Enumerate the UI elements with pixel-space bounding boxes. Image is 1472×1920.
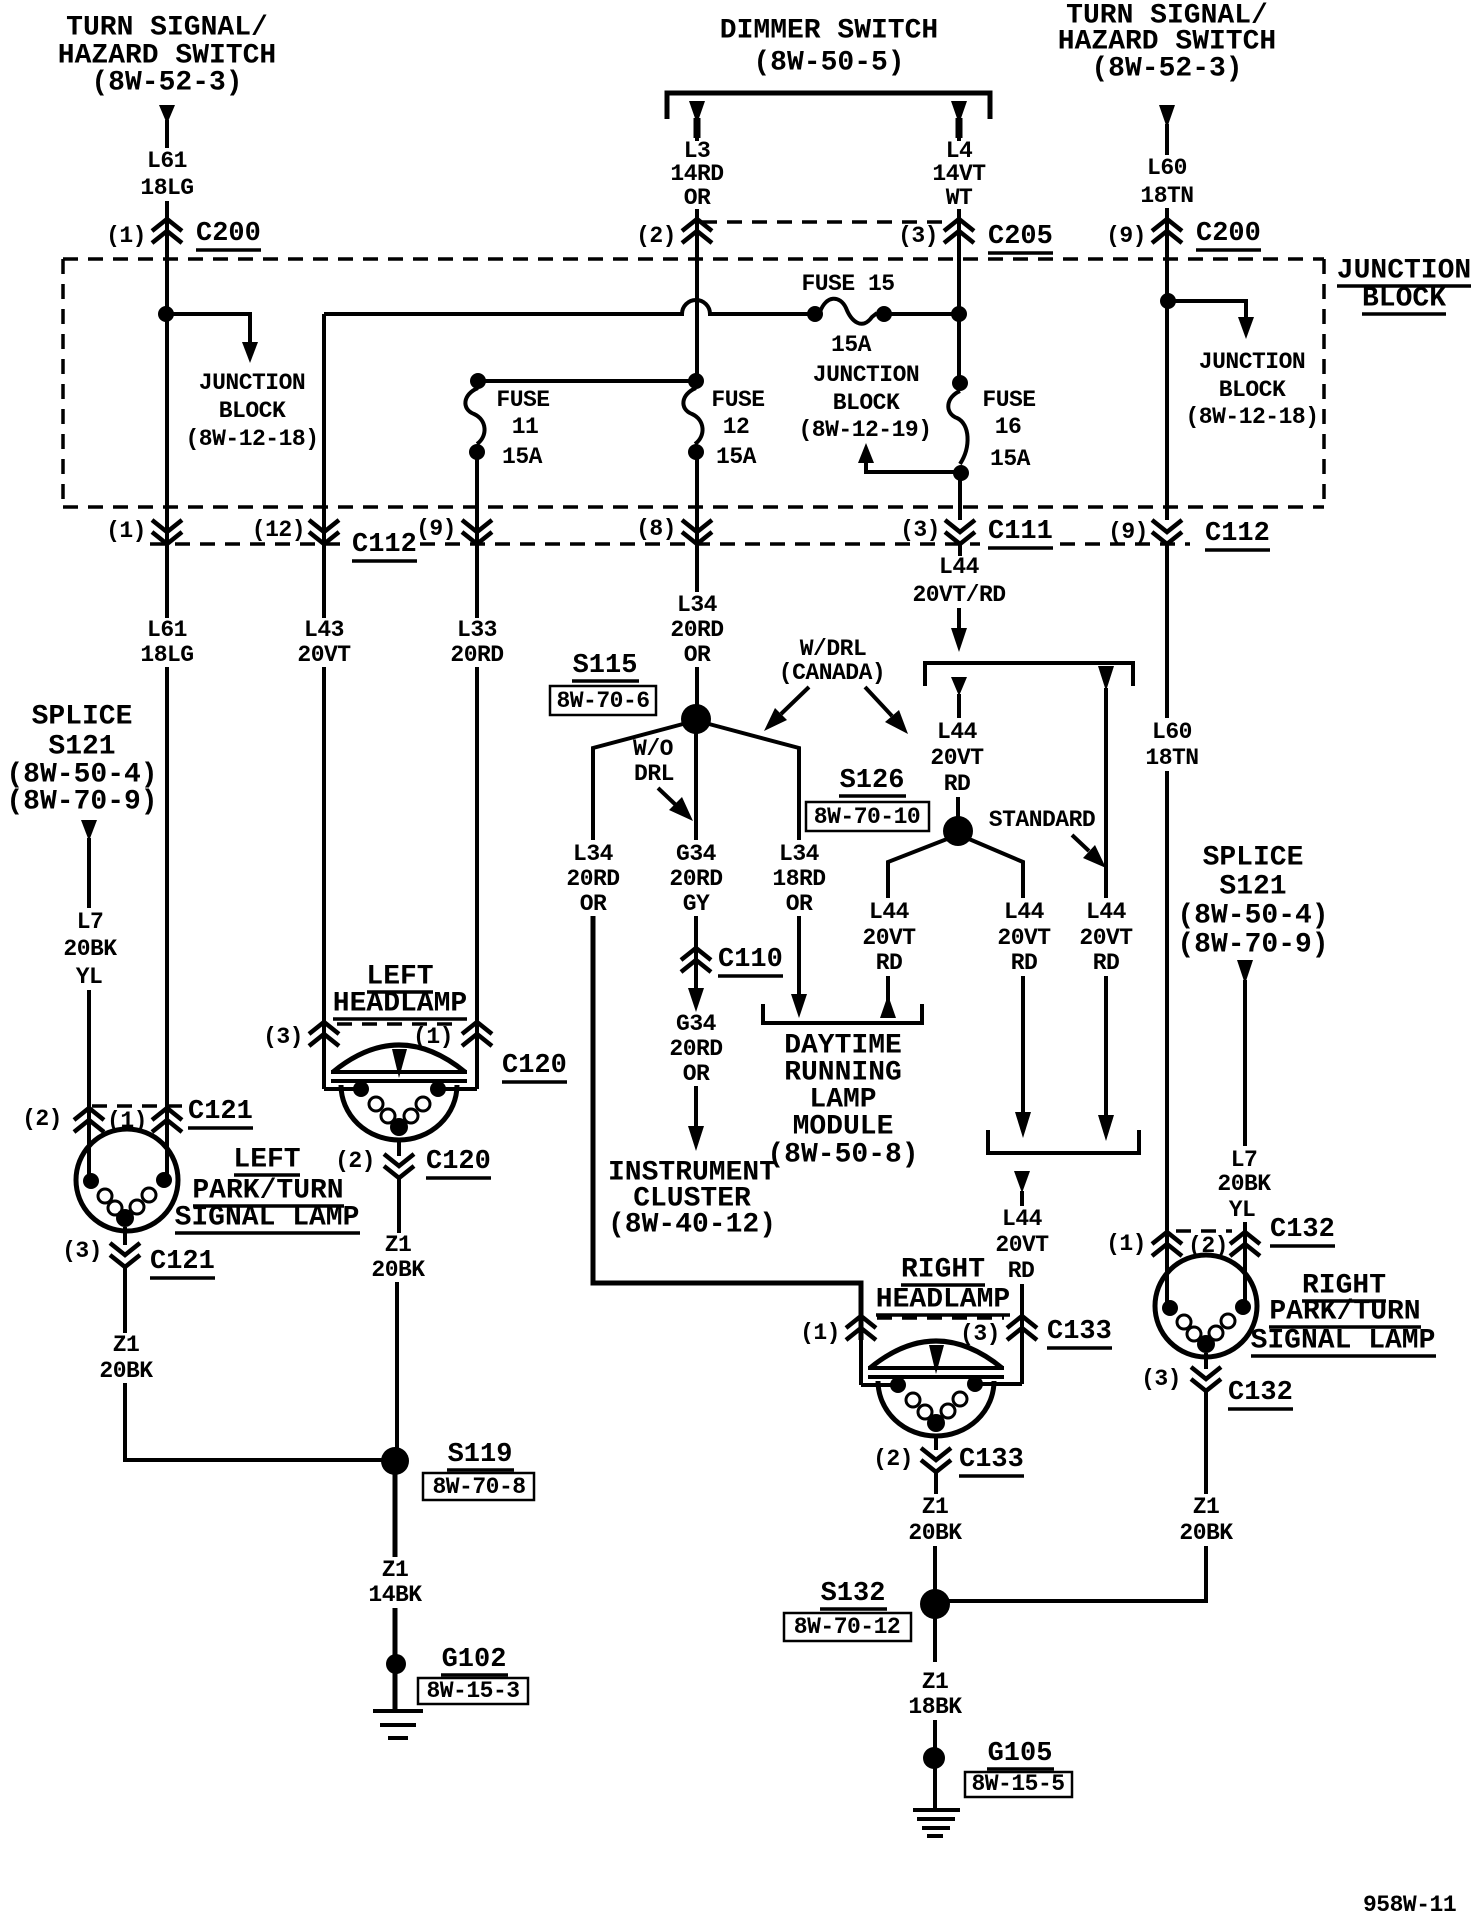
svg-text:(CANADA): (CANADA) xyxy=(779,660,885,686)
svg-text:BLOCK: BLOCK xyxy=(1219,377,1286,403)
svg-text:15A: 15A xyxy=(990,446,1031,472)
svg-text:OR: OR xyxy=(683,1061,710,1087)
svg-text:L34: L34 xyxy=(677,592,718,618)
fuse F12 xyxy=(683,373,764,470)
svg-text:C133: C133 xyxy=(1047,1317,1112,1347)
svg-text:L44: L44 xyxy=(937,719,978,745)
header: dimmer switch xyxy=(720,16,938,79)
svg-text:JUNCTION: JUNCTION xyxy=(1199,349,1305,375)
label: left park/turn signal lamp xyxy=(175,1145,360,1234)
svg-text:C200: C200 xyxy=(196,219,261,249)
svg-text:BLOCK: BLOCK xyxy=(1362,284,1446,315)
label: left headlamp xyxy=(333,962,467,1020)
svg-text:L44: L44 xyxy=(1004,899,1045,925)
wire Z1 14BK to ground G102 xyxy=(368,1473,422,1712)
connector C121 pin 1 xyxy=(107,1097,253,1134)
connector C111 pin 3 xyxy=(900,517,1053,548)
svg-text:L60: L60 xyxy=(1147,155,1187,181)
wire Z1 20BK from right headlamp to S132 xyxy=(908,1472,962,1594)
svg-text:JUNCTION: JUNCTION xyxy=(199,370,305,396)
wire L7 20BK YL to right park/turn lamp xyxy=(1217,980,1271,1303)
svg-text:G102: G102 xyxy=(442,1645,507,1675)
svg-text:20VT: 20VT xyxy=(862,925,916,951)
svg-text:L33: L33 xyxy=(457,617,497,643)
junction node on L61 xyxy=(158,306,174,322)
svg-text:C120: C120 xyxy=(502,1051,567,1081)
svg-text:S132: S132 xyxy=(821,1579,886,1609)
svg-text:L60: L60 xyxy=(1152,719,1192,745)
svg-text:958W-11: 958W-11 xyxy=(1363,1892,1456,1918)
svg-text:JUNCTION: JUNCTION xyxy=(1337,256,1471,287)
svg-text:20BK: 20BK xyxy=(1217,1171,1271,1197)
right park/turn signal lamp symbol xyxy=(1155,1255,1257,1357)
main feed wire from L4 via fuse 15 to L43 (hops over L3) xyxy=(324,300,959,314)
svg-text:16: 16 xyxy=(995,414,1022,440)
wire L3 through junction block xyxy=(695,243,699,383)
svg-text:(9): (9) xyxy=(1106,223,1146,249)
svg-text:SPLICE: SPLICE xyxy=(1203,843,1304,874)
junction block dashed outline xyxy=(63,259,1324,507)
svg-text:L44: L44 xyxy=(1086,899,1127,925)
svg-text:(8W-52-3): (8W-52-3) xyxy=(91,68,242,99)
svg-text:DIMMER SWITCH: DIMMER SWITCH xyxy=(720,16,938,47)
svg-text:12: 12 xyxy=(723,414,750,440)
svg-text:G34: G34 xyxy=(676,1011,717,1037)
wire L44 20VT RD from S126 to lamps bracket (middle) xyxy=(969,839,1051,1138)
wire G34 20RD OR to instrument cluster xyxy=(669,988,722,1151)
svg-text:8W-15-5: 8W-15-5 xyxy=(971,1771,1064,1797)
svg-text:(8W-50-8): (8W-50-8) xyxy=(767,1140,918,1171)
header: turn signal/hazard switch (right) xyxy=(1058,1,1276,85)
svg-text:(1): (1) xyxy=(1106,1231,1146,1257)
svg-text:(1): (1) xyxy=(106,223,146,249)
svg-text:OR: OR xyxy=(580,891,607,917)
label: daytime running lamp module xyxy=(767,1031,918,1171)
wire L61 through junction block xyxy=(165,243,169,520)
wire L44 20VT RD to splice S126 xyxy=(930,677,984,818)
svg-text:8W-15-3: 8W-15-3 xyxy=(426,1678,519,1704)
svg-text:(8W-70-9): (8W-70-9) xyxy=(1177,930,1328,961)
svg-text:HEADLAMP: HEADLAMP xyxy=(333,989,467,1020)
ground G102 xyxy=(373,1645,528,1738)
svg-text:15A: 15A xyxy=(831,332,872,358)
svg-text:WT: WT xyxy=(946,185,973,211)
wire fuse 11 feed xyxy=(478,379,696,383)
connector C133 pin 3 xyxy=(960,1316,1112,1348)
svg-text:GY: GY xyxy=(683,891,710,917)
svg-text:L7: L7 xyxy=(1231,1147,1258,1173)
svg-text:20VT: 20VT xyxy=(1079,925,1133,951)
connector C112 pin 9 (L33) xyxy=(416,516,492,544)
svg-text:20BK: 20BK xyxy=(1179,1520,1233,1546)
bracket: L44 join to right headlamp xyxy=(988,1130,1139,1153)
svg-text:FUSE: FUSE xyxy=(496,387,549,413)
svg-text:L7: L7 xyxy=(77,909,104,935)
svg-text:20VT: 20VT xyxy=(995,1232,1049,1258)
splice S115 xyxy=(550,651,711,734)
svg-text:Z1: Z1 xyxy=(922,1669,949,1695)
svg-text:20RD: 20RD xyxy=(669,1036,722,1062)
dimmer switch bracket xyxy=(667,93,990,119)
svg-text:(8W-12-18): (8W-12-18) xyxy=(185,426,318,452)
connector C110 xyxy=(681,945,783,976)
svg-text:RD: RD xyxy=(1093,950,1120,976)
svg-text:C121: C121 xyxy=(150,1247,215,1277)
svg-text:(2): (2) xyxy=(873,1446,913,1472)
connector C205 pin 2 xyxy=(636,219,712,249)
svg-text:20VT: 20VT xyxy=(930,745,984,771)
svg-text:(3): (3) xyxy=(898,223,938,249)
wire L61 18LG from turn signal switch (arrow + labels) xyxy=(140,105,193,668)
connector C200 pin 1 xyxy=(106,219,261,250)
svg-text:18RD: 18RD xyxy=(772,866,825,892)
svg-text:(9): (9) xyxy=(416,516,456,542)
svg-text:C110: C110 xyxy=(718,945,783,975)
svg-text:OR: OR xyxy=(684,185,711,211)
wire L34 18RD OR (w/ DRL branch) to DRL module xyxy=(709,724,826,1018)
label: junction block 8W-12-19 with arrow to fuse 16 output xyxy=(798,362,955,472)
wire L44 20VT RD to right headlamp C133 xyxy=(995,1171,1049,1384)
svg-text:15A: 15A xyxy=(716,444,757,470)
svg-text:DRL: DRL xyxy=(634,761,674,787)
svg-text:PARK/TURN: PARK/TURN xyxy=(1269,1297,1420,1328)
svg-text:C120: C120 xyxy=(426,1147,491,1177)
svg-text:L43: L43 xyxy=(304,617,344,643)
wire L7 20BK YL to left park/turn lamp xyxy=(63,838,117,1177)
wire L44 20VT RD standard path (right) xyxy=(1079,666,1133,1141)
label: splice S121 (left) xyxy=(6,702,157,842)
wire L34 20RD OR (w/o DRL branch) to right headlamp xyxy=(566,724,861,1340)
svg-text:14RD: 14RD xyxy=(670,161,723,187)
svg-text:L44: L44 xyxy=(1002,1206,1043,1232)
svg-text:C111: C111 xyxy=(988,517,1053,547)
wire L43 20VT to left headlamp xyxy=(297,314,351,1089)
connector C120 pin 2 xyxy=(335,1139,491,1178)
svg-text:S115: S115 xyxy=(573,651,638,681)
left park/turn signal lamp symbol xyxy=(76,1129,178,1231)
wire Z1 18BK to ground G105 xyxy=(908,1618,962,1810)
svg-text:20RD: 20RD xyxy=(669,866,722,892)
svg-text:L34: L34 xyxy=(573,841,614,867)
connector C133 pin 1 xyxy=(800,1316,1004,1346)
svg-text:20BK: 20BK xyxy=(99,1358,153,1384)
svg-text:C112: C112 xyxy=(352,530,417,560)
svg-text:JUNCTION: JUNCTION xyxy=(813,362,919,388)
svg-text:(3): (3) xyxy=(960,1321,1000,1347)
svg-text:(8W-50-5): (8W-50-5) xyxy=(753,48,904,79)
svg-text:L34: L34 xyxy=(779,841,820,867)
label: instrument cluster xyxy=(608,1158,776,1241)
connector C112 pin 8 xyxy=(636,516,712,544)
svg-text:YL: YL xyxy=(1229,1197,1256,1223)
connector C200 pin 9 xyxy=(1106,219,1261,250)
svg-text:(3): (3) xyxy=(263,1024,303,1050)
fuse F16 xyxy=(948,375,1035,481)
connector C205 pin 3 xyxy=(702,219,1053,253)
svg-text:14BK: 14BK xyxy=(368,1582,422,1608)
svg-text:20RD: 20RD xyxy=(450,642,503,668)
wire L33 20RD to left headlamp xyxy=(450,452,503,1089)
svg-text:C132: C132 xyxy=(1228,1378,1293,1408)
wire fuse16 to C111 xyxy=(958,473,962,520)
connector C121 pin 2 xyxy=(22,1106,186,1132)
ground G105 xyxy=(913,1739,1072,1836)
svg-text:L44: L44 xyxy=(939,554,980,580)
svg-text:C133: C133 xyxy=(959,1445,1024,1475)
svg-text:YL: YL xyxy=(76,964,103,990)
svg-text:HEADLAMP: HEADLAMP xyxy=(876,1285,1010,1316)
svg-text:18TN: 18TN xyxy=(1145,745,1198,771)
svg-text:(8): (8) xyxy=(636,516,676,542)
connector C133 pin 2 xyxy=(873,1435,1024,1476)
wire L3 14RD OR from dimmer switch xyxy=(670,101,723,243)
header: turn signal/hazard switch (left) xyxy=(58,13,276,99)
svg-text:SIGNAL LAMP: SIGNAL LAMP xyxy=(175,1203,360,1234)
wire L44 20VT/RD from C111 xyxy=(912,544,1005,652)
svg-text:C205: C205 xyxy=(988,222,1053,252)
connector C112 pin 12 xyxy=(252,517,417,561)
svg-text:(8W-52-3): (8W-52-3) xyxy=(1091,54,1242,85)
svg-text:(8W-12-19): (8W-12-19) xyxy=(798,417,931,443)
bracket: daytime running lamp module input xyxy=(763,1004,922,1023)
wire branch to junction block 8W-12-18 (right) xyxy=(1168,301,1319,430)
left headlamp symbol U-LH xyxy=(324,1045,477,1140)
svg-text:BLOCK: BLOCK xyxy=(219,398,286,424)
svg-text:RD: RD xyxy=(944,771,971,797)
svg-text:(3): (3) xyxy=(900,517,940,543)
svg-text:(3): (3) xyxy=(62,1238,102,1264)
svg-text:MODULE: MODULE xyxy=(793,1112,894,1143)
svg-text:(2): (2) xyxy=(636,223,676,249)
svg-text:Z1: Z1 xyxy=(1193,1494,1220,1520)
wire Z1 20BK from right park/turn lamp to S132 xyxy=(946,1391,1233,1601)
fuse F11 xyxy=(465,373,549,470)
wire L60 through junction block xyxy=(1165,243,1169,520)
svg-text:RD: RD xyxy=(1008,1258,1035,1284)
svg-text:14VT: 14VT xyxy=(932,161,986,187)
label: junction block (top right) xyxy=(1337,256,1471,315)
svg-text:(8W-40-12): (8W-40-12) xyxy=(608,1210,776,1241)
svg-text:C200: C200 xyxy=(1196,219,1261,249)
svg-text:20RD: 20RD xyxy=(670,617,723,643)
svg-text:SPLICE: SPLICE xyxy=(32,702,133,733)
svg-text:S121: S121 xyxy=(48,732,115,763)
svg-text:SIGNAL LAMP: SIGNAL LAMP xyxy=(1251,1326,1436,1357)
svg-text:11: 11 xyxy=(512,414,539,440)
connector C132 pin 2 xyxy=(1188,1215,1335,1259)
label: splice S121 (right) xyxy=(1177,843,1328,985)
svg-text:20VT: 20VT xyxy=(297,642,351,668)
connector C120 pin 3 xyxy=(263,1022,462,1050)
svg-text:RD: RD xyxy=(876,950,903,976)
wire L61 18LG to left park/turn lamp xyxy=(165,544,169,1176)
svg-text:8W-70-10: 8W-70-10 xyxy=(814,804,920,830)
svg-text:C112: C112 xyxy=(1205,519,1270,549)
svg-text:(1): (1) xyxy=(106,518,146,544)
connector C120 pin 1 xyxy=(413,1022,567,1082)
svg-text:20RD: 20RD xyxy=(566,866,619,892)
label W/DRL (CANADA) with arrows xyxy=(764,636,908,734)
label: right headlamp xyxy=(876,1255,1010,1316)
connector C132 pin 3 xyxy=(1141,1353,1293,1409)
svg-text:L44: L44 xyxy=(869,899,910,925)
svg-text:18LG: 18LG xyxy=(140,175,193,201)
wire L44 20VT RD from S126 to DRL module (left) xyxy=(862,839,947,1018)
svg-text:20BK: 20BK xyxy=(63,936,117,962)
svg-text:(8W-50-4): (8W-50-4) xyxy=(1177,901,1328,932)
svg-text:18BK: 18BK xyxy=(908,1694,962,1720)
label STANDARD with arrow xyxy=(989,807,1106,868)
svg-text:18LG: 18LG xyxy=(140,642,193,668)
svg-text:FUSE: FUSE xyxy=(982,387,1035,413)
svg-text:(12): (12) xyxy=(252,517,305,543)
label W/O DRL with arrow xyxy=(633,736,693,821)
svg-text:RD: RD xyxy=(1011,950,1038,976)
wire L4 14VT WT from dimmer switch xyxy=(932,101,986,243)
wire L60 18TN (below junction block) xyxy=(1145,544,1198,1303)
svg-text:FUSE: FUSE xyxy=(711,387,764,413)
svg-text:LEFT: LEFT xyxy=(233,1145,300,1176)
connector C121 pin 3 xyxy=(62,1227,215,1278)
svg-text:TURN SIGNAL/: TURN SIGNAL/ xyxy=(66,13,268,44)
connector C132 pin 1 xyxy=(1106,1231,1232,1257)
svg-text:G34: G34 xyxy=(676,841,717,867)
svg-text:8W-70-6: 8W-70-6 xyxy=(556,688,649,714)
svg-text:C132: C132 xyxy=(1270,1215,1335,1245)
svg-text:18TN: 18TN xyxy=(1140,183,1193,209)
splice S126 xyxy=(806,766,973,846)
svg-text:(2): (2) xyxy=(22,1106,62,1132)
svg-text:S126: S126 xyxy=(840,766,905,796)
svg-text:S119: S119 xyxy=(448,1440,513,1470)
svg-text:C121: C121 xyxy=(188,1097,253,1127)
connector C112 pin 1 xyxy=(106,518,182,544)
wire L4 through junction block xyxy=(957,243,961,385)
bracket: L44 split under C111 xyxy=(925,663,1133,686)
svg-text:FUSE 15: FUSE 15 xyxy=(801,271,894,297)
svg-text:20BK: 20BK xyxy=(908,1520,962,1546)
svg-text:S121: S121 xyxy=(1219,872,1286,903)
svg-text:8W-70-12: 8W-70-12 xyxy=(794,1614,900,1640)
junction node on L4 xyxy=(951,306,967,322)
svg-text:(3): (3) xyxy=(1141,1366,1181,1392)
svg-text:G105: G105 xyxy=(988,1739,1053,1769)
svg-text:STANDARD: STANDARD xyxy=(989,807,1095,833)
wire L60 18TN from turn signal switch (right) xyxy=(1140,105,1193,243)
wire Z1 20BK from left park/turn lamp to S119 xyxy=(99,1267,385,1460)
connector C112 pin 9 (L60) xyxy=(1108,519,1270,550)
fuse F15 xyxy=(801,271,894,358)
svg-text:20VT/RD: 20VT/RD xyxy=(912,582,1005,608)
svg-text:OR: OR xyxy=(786,891,813,917)
svg-text:OR: OR xyxy=(684,642,711,668)
svg-text:20VT: 20VT xyxy=(997,925,1051,951)
svg-text:Z1: Z1 xyxy=(113,1332,140,1358)
svg-text:RIGHT: RIGHT xyxy=(901,1255,985,1286)
svg-text:15A: 15A xyxy=(502,444,543,470)
splice S132 xyxy=(784,1579,950,1641)
svg-text:Z1: Z1 xyxy=(922,1494,949,1520)
label: right park/turn signal lamp xyxy=(1251,1271,1436,1357)
wire L34 20RD OR to splice S115 xyxy=(670,452,723,710)
svg-text:8W-70-8: 8W-70-8 xyxy=(432,1474,525,1500)
connector row C112/C111 dashed bar xyxy=(150,542,1190,546)
svg-text:Z1: Z1 xyxy=(385,1232,412,1258)
svg-text:W/DRL: W/DRL xyxy=(800,636,867,662)
svg-text:(9): (9) xyxy=(1108,519,1148,545)
wire branch to junction block 8W-12-18 (left) xyxy=(166,314,319,452)
svg-text:(1): (1) xyxy=(800,1320,840,1346)
svg-text:(8W-12-18): (8W-12-18) xyxy=(1185,404,1318,430)
junction node on L60 xyxy=(1160,293,1176,309)
wire Z1 20BK from left headlamp xyxy=(371,1178,425,1453)
svg-text:L61: L61 xyxy=(147,617,187,643)
svg-text:W/O: W/O xyxy=(633,736,673,762)
splice S119 xyxy=(381,1440,534,1500)
svg-text:L61: L61 xyxy=(147,148,187,174)
svg-text:(2): (2) xyxy=(335,1148,375,1174)
svg-text:Z1: Z1 xyxy=(382,1557,409,1583)
svg-text:BLOCK: BLOCK xyxy=(833,390,900,416)
wire G34 20RD GY to C110 xyxy=(669,733,722,988)
right headlamp symbol U-RH xyxy=(861,1340,1022,1436)
svg-text:(8W-70-9): (8W-70-9) xyxy=(6,787,157,818)
svg-text:20BK: 20BK xyxy=(371,1257,425,1283)
